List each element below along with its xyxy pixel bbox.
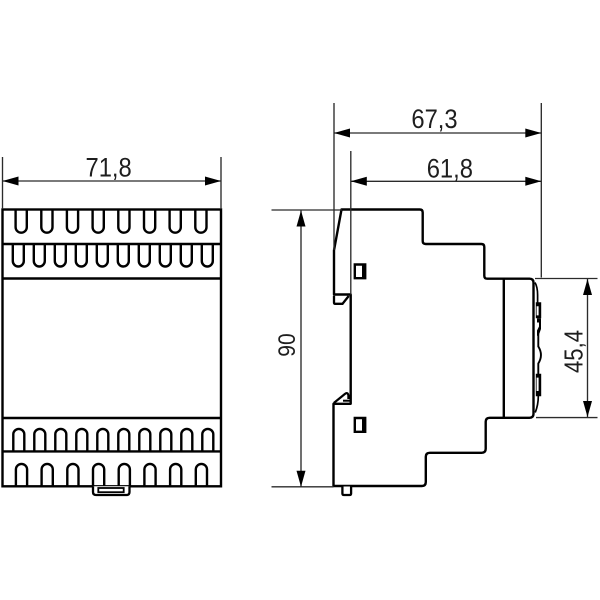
side view rear face square detail upper: [354, 263, 367, 279]
dim 67,3 arrow right: [525, 129, 541, 138]
dim 67,3 arrow left: [334, 129, 350, 138]
svg-text:90: 90: [274, 333, 301, 356]
side view rear face square detail lower: [354, 417, 367, 433]
front view terminal shelf line lower 1: [3, 417, 222, 419]
dim 61,8 arrow right: [525, 177, 541, 186]
front view DIN clip tab inner: [98, 488, 123, 492]
front view terminal shelf line lower 2: [3, 450, 222, 452]
svg-text:45,4: 45,4: [560, 330, 589, 373]
dim 45,4 dimension line: [587, 279, 589, 417]
dim 90 dimension line: [300, 211, 302, 487]
side view bottom spring hook: [334, 393, 349, 403]
dim 61,8 dimension line: [351, 180, 542, 182]
svg-text:67,3: 67,3: [411, 105, 457, 135]
dim 71,8 dimension line: [3, 180, 222, 182]
dim 71,8 extension line left: [2, 157, 4, 209]
side view bottom clip tab: [342, 487, 351, 496]
dim 71,8 extension line right: [220, 157, 222, 209]
front view top terminal slot row 1 (8 slots): [16, 210, 207, 233]
front view bottom terminal slot row 4 (8 slots): [16, 464, 207, 486]
dim 61,8 extension line left: [350, 151, 352, 295]
side view main outline: [334, 210, 534, 487]
dim 45,4 arrow top: [583, 279, 592, 295]
front view DIN clip tab outer: [93, 486, 130, 495]
dim 61,8 arrow left: [351, 177, 367, 186]
dim 90 extension line top: [272, 209, 343, 211]
front view body outline: [3, 210, 222, 487]
svg-text:61,8: 61,8: [427, 154, 473, 184]
dim 67,3 dimension line: [334, 132, 541, 134]
dim 90 extension line bottom: [272, 486, 334, 488]
side view front face bump: [538, 347, 541, 375]
dim 90 arrow bottom: [297, 471, 306, 487]
dim 90 arrow top: [297, 211, 306, 227]
dim 71,8 arrow left: [3, 177, 19, 186]
dim 67,3 extension line left: [333, 103, 335, 250]
dim 45,4 extension line top: [535, 278, 598, 280]
side view front face mid line: [537, 334, 539, 347]
front view terminal shelf line upper 2: [3, 243, 222, 245]
dim 67,3 / 61,8 extension line right: [540, 103, 542, 278]
svg-text:71,8: 71,8: [85, 153, 131, 183]
side view front face clip upper: [536, 302, 541, 318]
front view bottom terminal slot row 3 (10 slots): [13, 429, 213, 452]
side view bottom spring hook inner line: [343, 400, 351, 402]
side view front face squiggle: [537, 318, 541, 336]
dim 71,8 arrow right: [205, 177, 221, 186]
side view DIN hook pocket: [334, 296, 349, 304]
side view front bezel inner edge: [503, 279, 505, 417]
side view front face contour top taper: [535, 283, 538, 304]
dim 45,4 arrow bottom: [583, 401, 592, 417]
dim 45,4 extension line bottom: [536, 417, 598, 419]
front view terminal shelf line upper 3: [3, 277, 222, 279]
side view front face clip lower: [536, 374, 541, 396]
side view front face bottom taper: [535, 396, 538, 413]
front view top terminal slot row 2 (10 slots): [13, 244, 213, 267]
